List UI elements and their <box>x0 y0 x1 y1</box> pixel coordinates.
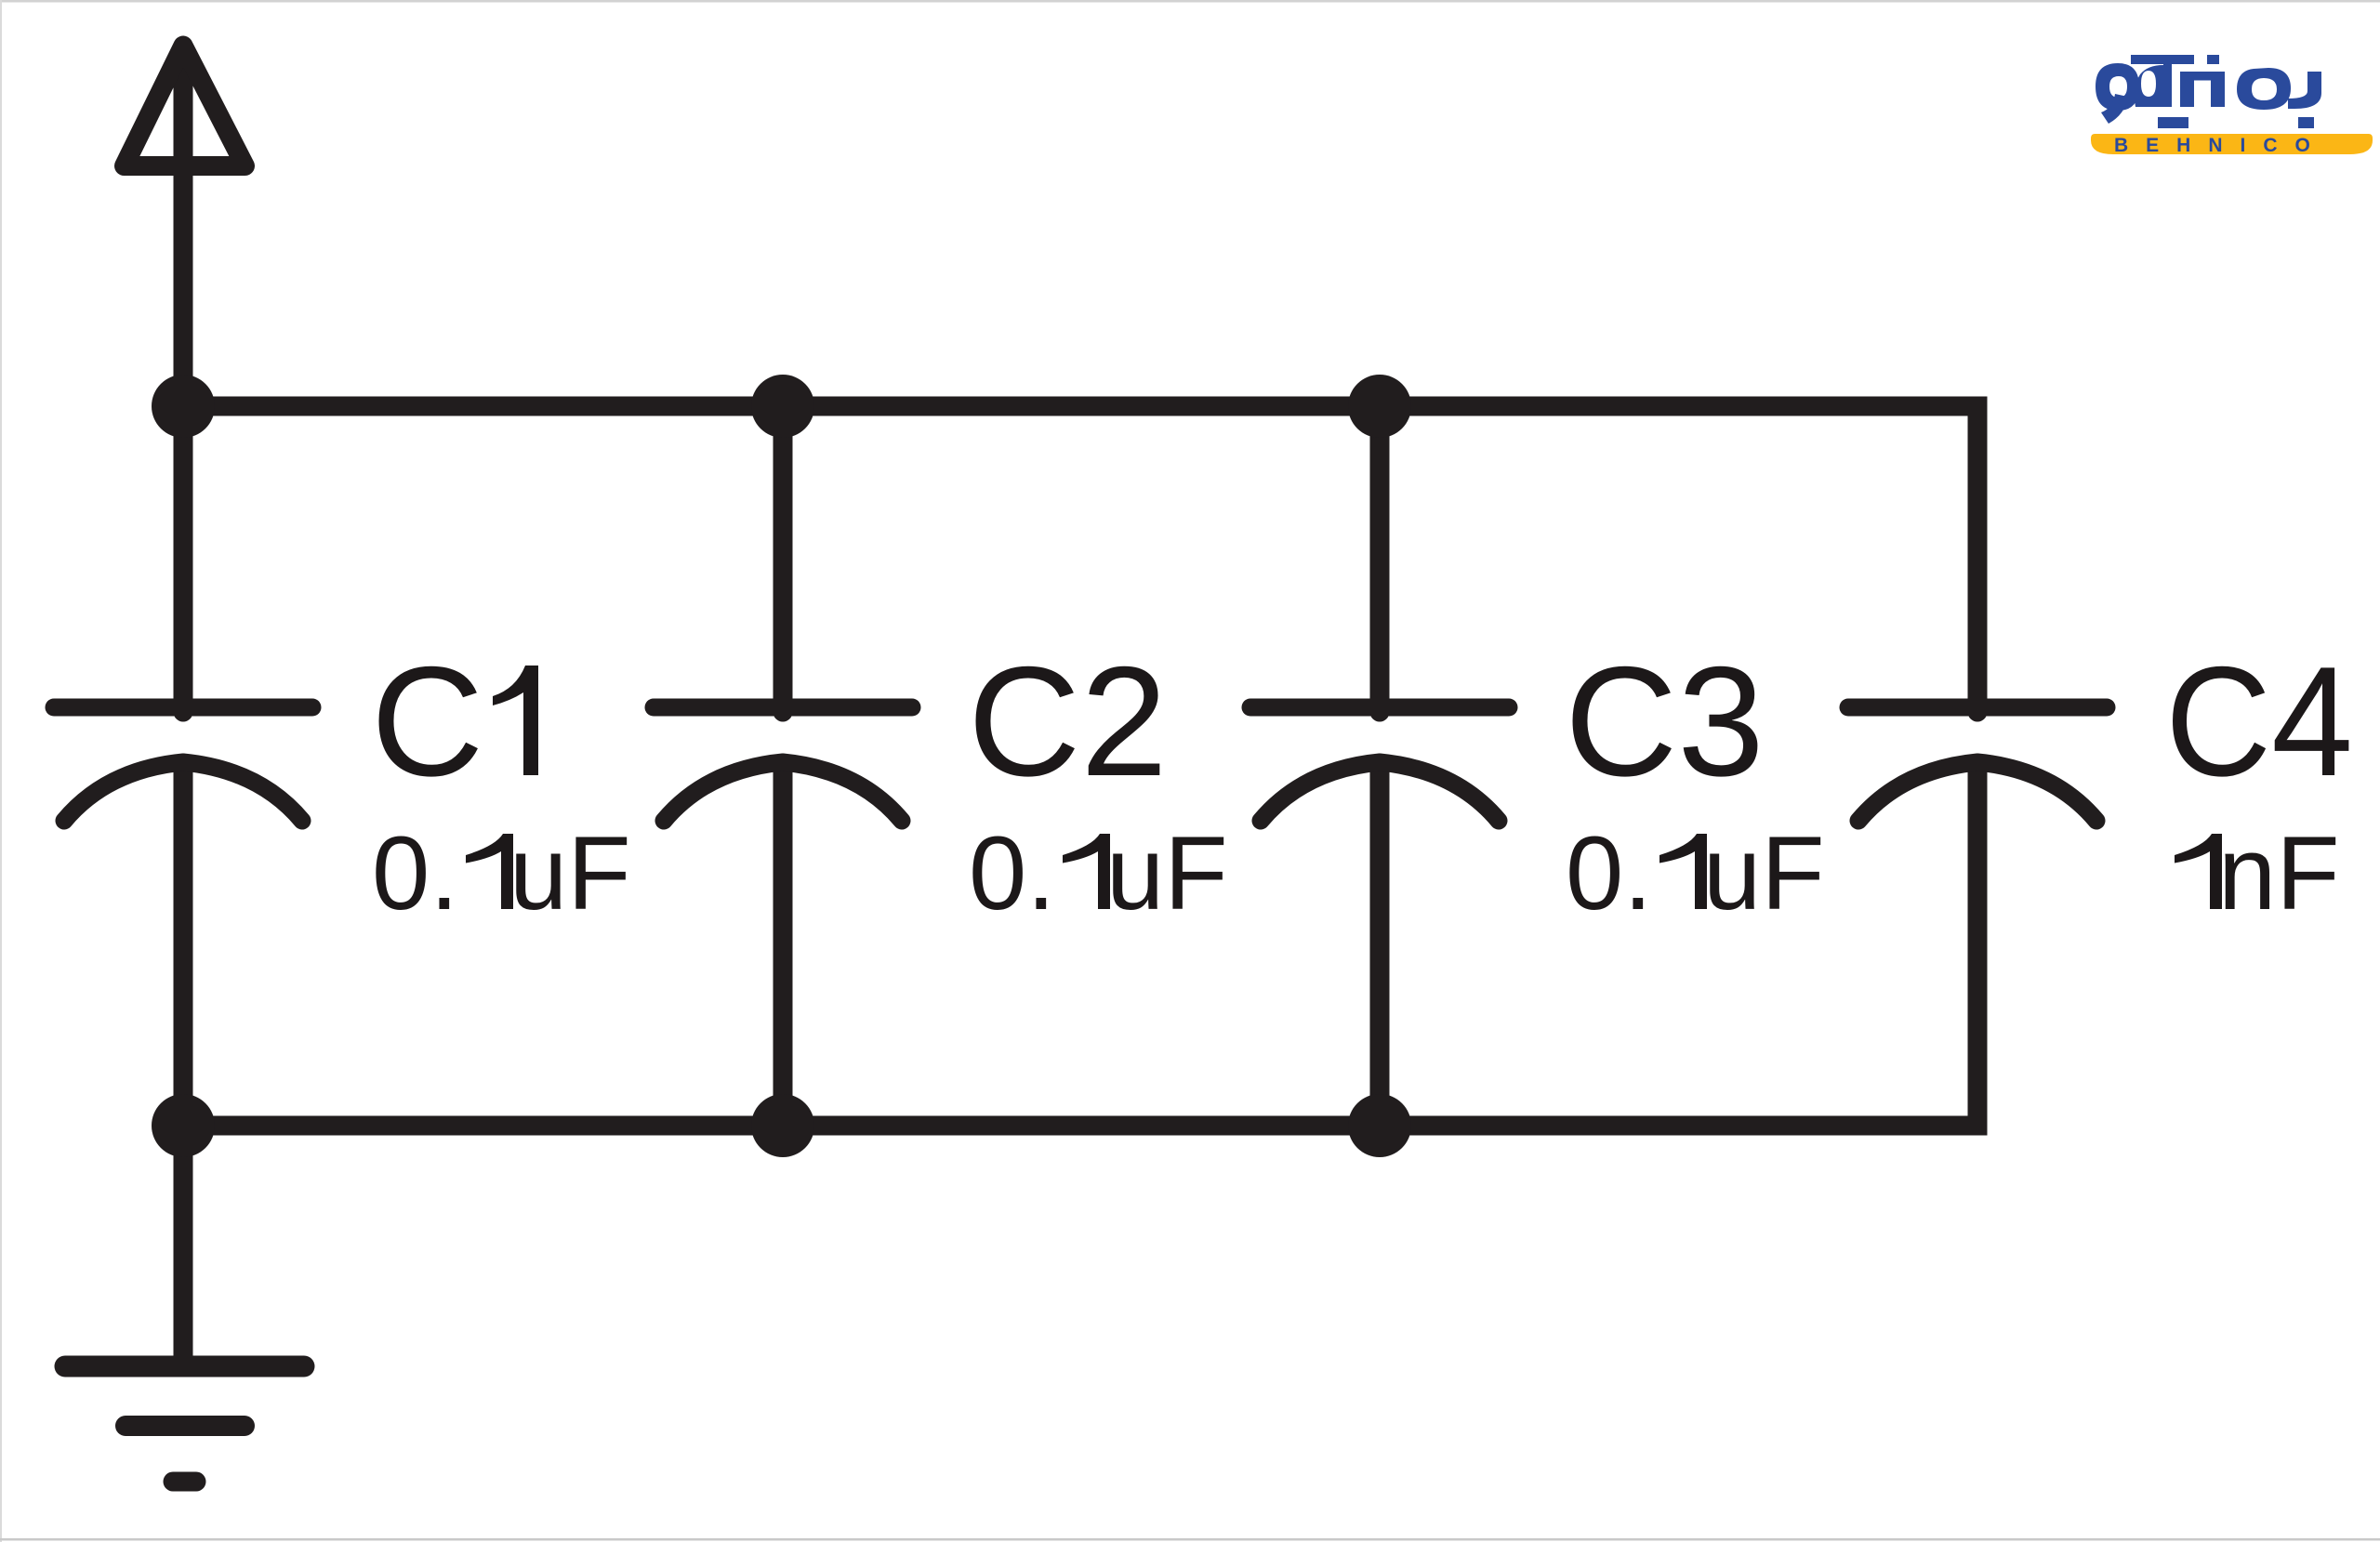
svg-text:uF: uF <box>509 815 631 931</box>
svg-text:0.: 0. <box>969 815 1055 931</box>
svg-text:C3: C3 <box>1565 634 1765 809</box>
svg-text:C4: C4 <box>2165 634 2353 809</box>
svg-text:BEHNICO: BEHNICO <box>2114 135 2328 156</box>
svg-text:C: C <box>371 634 483 809</box>
svg-text:C2: C2 <box>968 634 1168 809</box>
svg-text:uF: uF <box>1106 815 1228 931</box>
svg-text:0.: 0. <box>1566 815 1652 931</box>
svg-text:0.: 0. <box>372 815 458 931</box>
svg-text:uF: uF <box>1703 815 1825 931</box>
svg-text:nF: nF <box>2218 815 2340 931</box>
